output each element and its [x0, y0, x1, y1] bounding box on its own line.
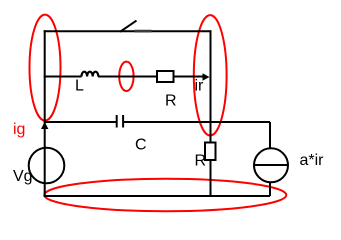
- current source a*ir diameter line: [254, 164, 288, 166]
- svg-text:ir: ir: [195, 78, 205, 95]
- inductor L: [82, 72, 99, 77]
- arrow ig (on left wire, pointing up): [41, 122, 48, 129]
- resistor R1: [157, 71, 174, 82]
- annotation ellipse right (red, around ir branch): [194, 15, 227, 135]
- wire below R2: [210, 161, 212, 196]
- wire down to current source: [269, 122, 271, 149]
- capacitor C plate left: [116, 115, 118, 128]
- wire right vertical: [210, 30, 212, 143]
- wire middle branch mid: [98, 76, 157, 78]
- current source a*ir: [254, 148, 288, 182]
- source Vg: [29, 148, 65, 184]
- switch blade: [120, 21, 137, 32]
- resistor R2: [205, 143, 216, 161]
- svg-text:ig: ig: [13, 121, 25, 138]
- svg-text:R: R: [165, 93, 177, 110]
- capacitor branch wire left: [44, 121, 117, 123]
- wire bottom: [44, 195, 270, 197]
- annotation ellipse small (red, on L-R branch): [119, 62, 133, 91]
- arrow ir (pointing right into node): [203, 73, 210, 81]
- switch contact bar: [135, 30, 152, 33]
- annotation ellipse left (red, around ig branch): [30, 15, 61, 121]
- capacitor branch wire right: [123, 121, 270, 123]
- wire top: [44, 30, 212, 32]
- svg-text:L: L: [75, 78, 84, 95]
- annotation oval bottom (red, around bottom node): [44, 179, 286, 211]
- svg-text:a*ir: a*ir: [300, 152, 325, 169]
- wire middle branch left: [44, 76, 82, 78]
- svg-text:C: C: [135, 137, 147, 154]
- wire below current source: [269, 182, 271, 196]
- svg-text:R: R: [195, 153, 207, 170]
- wire left vertical: [44, 30, 46, 196]
- svg-text:Vg: Vg: [13, 168, 33, 185]
- capacitor C plate right: [122, 115, 124, 128]
- wire middle branch right: [174, 76, 204, 78]
